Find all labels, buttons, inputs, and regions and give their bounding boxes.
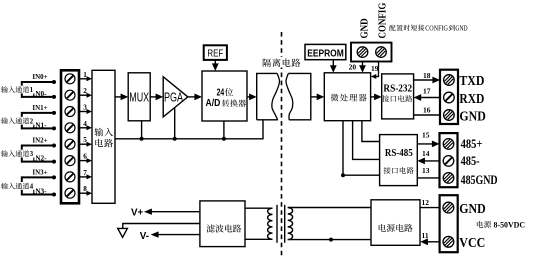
wire TXD pin 18 <box>414 77 440 84</box>
memory EEPROM <box>305 44 346 59</box>
svg-text:15: 15 <box>422 131 430 140</box>
svg-text:A/D: A/D <box>206 98 221 109</box>
svg-text:PGA: PGA <box>164 89 183 104</box>
wire pin 5 to input circuit <box>79 142 92 147</box>
label IN1+ <box>32 103 47 112</box>
terminal block J4 pins 12 11 <box>440 195 458 252</box>
wire GND pin 16 <box>414 114 440 116</box>
svg-text:IN1+: IN1+ <box>32 103 47 112</box>
label 485GND <box>461 173 498 187</box>
wire MCU to RS-232 <box>371 94 382 101</box>
note config <box>389 24 467 32</box>
wire IN2- <box>22 145 56 164</box>
pin number 19 <box>371 64 379 73</box>
pin number 2 <box>83 87 87 95</box>
wire pin 4 to input circuit <box>79 125 92 130</box>
svg-text:4: 4 <box>83 120 87 128</box>
wire V+ output <box>144 209 200 215</box>
isolation dashed line <box>281 32 283 258</box>
junction <box>341 173 345 177</box>
pin number 18 <box>423 71 431 80</box>
svg-text:RS-232: RS-232 <box>383 84 412 95</box>
wire IN1+ <box>22 111 56 115</box>
pin number 14 <box>422 149 430 158</box>
wire ADC control stub <box>223 121 225 139</box>
wire 485+ pin 15 <box>417 141 439 148</box>
svg-text:20: 20 <box>349 63 357 72</box>
isolation barrier left half <box>257 73 280 119</box>
terminal block J1 pins 1-8 <box>61 70 79 203</box>
svg-text:EEPROM: EEPROM <box>307 49 344 60</box>
label IN3- <box>32 187 47 196</box>
wire IN0+ <box>22 80 56 84</box>
svg-text:2: 2 <box>30 117 34 125</box>
pin number 16 <box>423 106 431 115</box>
svg-text:IN2+: IN2+ <box>32 136 47 145</box>
svg-text:VCC: VCC <box>459 235 485 250</box>
microprocessor 微处理器 <box>324 73 370 121</box>
wire to ground <box>123 223 200 229</box>
label input-channel-1 <box>1 86 37 95</box>
pin number 12 <box>422 198 430 207</box>
svg-text:IN0+: IN0+ <box>32 72 47 81</box>
note power supply range <box>477 219 525 229</box>
wire pin 7 to input circuit <box>79 174 92 179</box>
wire IN0- <box>22 81 56 99</box>
wire VCC pin 11 <box>420 238 439 245</box>
junction <box>173 137 177 141</box>
svg-text:7: 7 <box>83 169 87 177</box>
amplifier PGA <box>163 77 188 117</box>
label 485- <box>461 154 480 168</box>
svg-text:485-: 485- <box>461 154 480 168</box>
control bus wire <box>115 120 263 140</box>
label input-channel-3 <box>1 150 37 159</box>
label RXD <box>459 91 484 106</box>
ground symbol <box>118 228 128 237</box>
pin number 13 <box>422 166 430 175</box>
label IN0- <box>32 89 47 98</box>
wire V- output <box>151 231 200 237</box>
wire EEPROM to MCU <box>330 60 337 73</box>
wire pin 6 to input circuit <box>79 158 92 163</box>
svg-text:MUX: MUX <box>129 89 149 104</box>
wire pin 2 to input circuit <box>79 93 92 98</box>
wire pin 1 to input circuit <box>79 76 92 81</box>
A/D converter 24-bit <box>202 71 247 121</box>
pin number 3 <box>83 104 87 112</box>
multiplexer MUX <box>128 73 150 121</box>
svg-text:3: 3 <box>83 104 87 112</box>
RS-232 interface box <box>382 74 414 119</box>
svg-text:CONFIG: CONFIG <box>378 3 389 39</box>
svg-text:GND: GND <box>459 201 485 216</box>
pin number 1 <box>83 71 87 79</box>
filter circuit box 滤波电路 <box>200 201 245 247</box>
svg-text:REF: REF <box>207 48 223 59</box>
label V- <box>140 231 149 242</box>
wire REF to ADC <box>212 60 219 71</box>
svg-text:18: 18 <box>423 71 431 80</box>
wire isolation to MCU <box>311 94 325 101</box>
svg-text:5: 5 <box>83 136 87 144</box>
svg-text:V+: V+ <box>131 207 144 218</box>
label isolation circuit 隔离电路 <box>261 57 303 68</box>
svg-text:13: 13 <box>422 166 430 175</box>
label IN1- <box>32 121 47 130</box>
wire IN3+ <box>22 175 56 179</box>
wire ADC to isolation <box>247 94 257 101</box>
label GND (rotated) <box>359 18 370 38</box>
pin number 11 <box>422 231 429 240</box>
svg-text:11: 11 <box>422 231 429 240</box>
svg-text:17: 17 <box>423 86 431 95</box>
input circuit box 输入电路 <box>92 70 115 203</box>
svg-text:14: 14 <box>422 149 430 158</box>
wire MCU to RS-485 b <box>352 121 380 160</box>
svg-text:GND: GND <box>459 108 485 123</box>
wire GND pin 12 <box>420 207 440 209</box>
wire IN3- <box>22 176 56 196</box>
svg-text:19: 19 <box>371 64 379 73</box>
wire input circuit to MUX <box>115 94 128 101</box>
wire PGA to ADC <box>188 94 202 101</box>
wire 485GND pin 13 <box>417 177 439 179</box>
svg-text:8: 8 <box>83 185 87 193</box>
svg-text:12: 12 <box>422 198 430 207</box>
svg-text:1: 1 <box>83 71 87 79</box>
label CONFIG (rotated) <box>378 3 389 39</box>
junction <box>140 137 144 141</box>
svg-text:485+: 485+ <box>461 137 483 151</box>
power circuit box 电源电路 <box>371 200 420 246</box>
svg-text:4: 4 <box>30 183 34 191</box>
svg-text:RS-485: RS-485 <box>385 148 413 159</box>
label IN2+ <box>32 136 47 145</box>
label GND <box>459 108 485 123</box>
pin number 8 <box>83 185 87 193</box>
reference REF <box>204 45 227 60</box>
label V+ <box>131 207 144 218</box>
wire pin 3 to input circuit <box>79 109 92 114</box>
svg-text:GND: GND <box>359 18 370 38</box>
label 485+ <box>461 137 483 151</box>
wire IN1- <box>22 112 56 130</box>
pin number 20 <box>349 63 357 72</box>
svg-text:GND: GND <box>455 24 467 32</box>
label TXD <box>459 73 484 88</box>
junction <box>222 137 226 141</box>
wire MCU to RS-485 c <box>342 121 379 176</box>
svg-text:6: 6 <box>83 153 87 161</box>
svg-text:16: 16 <box>423 106 431 115</box>
transformer T1 <box>245 205 371 243</box>
pin number 17 <box>423 86 431 95</box>
terminal block J2 pins 18 17 16 <box>440 70 458 124</box>
svg-text:24: 24 <box>217 88 225 99</box>
label VCC <box>459 235 485 250</box>
RS-485 interface box <box>380 135 418 186</box>
svg-text:V-: V- <box>140 231 149 242</box>
pin number 5 <box>83 136 87 144</box>
svg-text:IN3+: IN3+ <box>32 167 47 176</box>
svg-text:3: 3 <box>30 150 34 158</box>
svg-text:1: 1 <box>30 86 34 94</box>
isolation barrier right half <box>286 73 311 119</box>
wire CONFIG pin to MCU <box>371 62 379 80</box>
junction <box>329 238 333 242</box>
pin number 4 <box>83 120 87 128</box>
svg-text:CONFIG: CONFIG <box>425 24 448 32</box>
svg-text:8-50VDC: 8-50VDC <box>494 219 526 229</box>
wire pin 8 to input circuit <box>79 191 92 196</box>
wire MCU to RS-485 a <box>361 121 379 142</box>
svg-text:TXD: TXD <box>459 73 484 88</box>
svg-text:RXD: RXD <box>459 91 484 106</box>
label input-channel-2 <box>1 117 37 126</box>
terminal block J3 pins 15 14 13 <box>440 133 458 187</box>
terminal block J5 pins 20 19 <box>351 43 392 62</box>
pin number 15 <box>422 131 430 140</box>
svg-text:485GND: 485GND <box>461 173 498 187</box>
label IN3+ <box>32 167 47 176</box>
pin number 7 <box>83 169 87 177</box>
label input-channel-4 <box>1 182 37 191</box>
label IN2- <box>32 154 47 163</box>
wire 485- pin 14 <box>417 158 439 165</box>
wire GND pin to MCU <box>359 62 366 73</box>
label IN0+ <box>32 72 47 81</box>
label GND power <box>459 201 485 216</box>
svg-text:2: 2 <box>83 87 87 95</box>
pin number 6 <box>83 153 87 161</box>
wire IN2+ <box>22 144 56 148</box>
wire MUX control stub <box>141 121 143 139</box>
wire PGA control stub <box>174 108 176 139</box>
wire MUX to PGA <box>150 94 163 101</box>
wire RXD pin 17 <box>414 94 440 101</box>
